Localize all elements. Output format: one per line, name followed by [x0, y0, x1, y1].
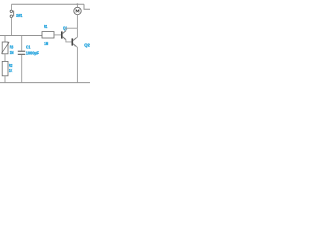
- svg-text:C1: C1: [26, 45, 31, 50]
- resistor R1: [42, 32, 54, 38]
- wire R3 to R2: [4, 54, 6, 62]
- wire SW1 top drop: [11, 4, 13, 10]
- svg-text:1M: 1M: [44, 41, 48, 46]
- svg-text:1000µF: 1000µF: [26, 50, 40, 55]
- wire Q2 emitter to bottom rail: [76, 47, 77, 83]
- wire R2 to bottom rail: [4, 76, 6, 83]
- svg-text:R3: R3: [10, 45, 14, 50]
- wire SW1 to bus: [11, 18, 13, 36]
- capacitor C1: [18, 51, 25, 54]
- wire R3 top lead: [4, 36, 6, 43]
- wire right supply jog: [84, 4, 90, 9]
- svg-text:Q2: Q2: [84, 42, 90, 47]
- wire motor bottom lead: [76, 15, 78, 29]
- junction dot motor/top-rail: [77, 3, 79, 5]
- wire top rail: [12, 3, 85, 5]
- transistor Q1: [62, 31, 66, 40]
- wire Q2 collector lead: [76, 28, 77, 38]
- svg-text:R1: R1: [44, 24, 48, 29]
- transistor Q2: [72, 38, 76, 47]
- wire motor top lead: [76, 4, 78, 7]
- wire bottom rail: [0, 82, 90, 84]
- svg-text:SW1: SW1: [16, 13, 23, 18]
- switch SW1: [10, 10, 14, 17]
- svg-text:1M: 1M: [10, 50, 14, 55]
- wire C1 bottom lead: [21, 55, 23, 83]
- resistor R3 (variable): [2, 42, 8, 54]
- wire Q1 collector lead: [65, 28, 67, 31]
- wire Q1 emitter to Q2 base: [66, 40, 72, 42]
- motor M (X1): [74, 7, 81, 14]
- wire collector jog to motor: [66, 27, 78, 29]
- resistor R2: [2, 61, 8, 75]
- wire node-A bus: [0, 35, 42, 37]
- svg-text:1K: 1K: [9, 68, 13, 73]
- wire C1 top lead: [21, 36, 23, 51]
- wire R1 to Q1 base: [54, 34, 61, 36]
